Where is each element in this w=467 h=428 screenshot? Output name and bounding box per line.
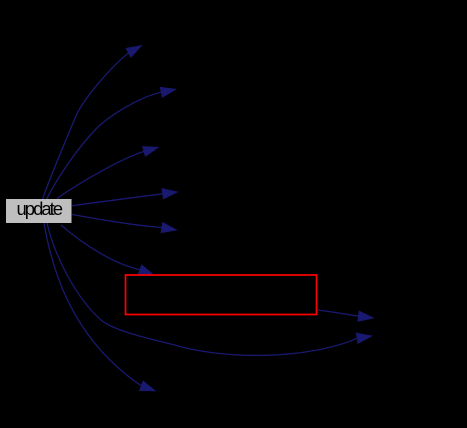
edge update->node7 [44,223,155,391]
edge update->node4 [72,189,178,206]
edge update->rednode [61,225,154,275]
edge update->node5 [72,214,177,232]
edge update->node1 [43,46,142,200]
svg-text:update: update [17,198,63,219]
edge update->node6b [47,223,372,355]
edge update->node2 [47,87,176,199]
edge update->node3 [57,147,158,199]
node update (current function) [6,198,72,223]
node rednode (truncated, red border) [126,275,317,315]
edge rednode->node6 [317,310,373,321]
